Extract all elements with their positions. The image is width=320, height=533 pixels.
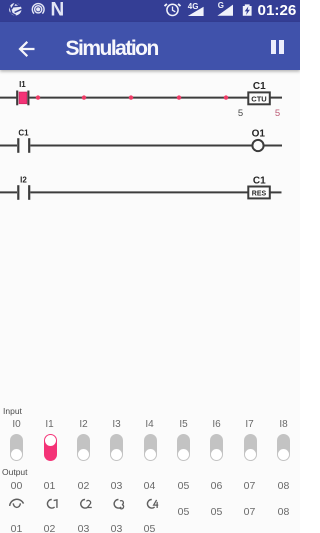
counter values right (05 05 07 08) xyxy=(0,506,300,516)
toggle I8 off xyxy=(277,434,290,461)
svg-text:CTU: CTU xyxy=(251,95,266,104)
output labels row xyxy=(0,480,300,490)
svg-text:01:26: 01:26 xyxy=(258,2,297,19)
flow dot 1 xyxy=(36,95,40,99)
rung 1 wire right xyxy=(270,97,282,99)
bottom row labels (01 02 03 03 05) xyxy=(0,523,300,533)
status bar xyxy=(0,0,300,22)
svg-text:RES: RES xyxy=(252,191,267,198)
svg-text:N: N xyxy=(51,0,65,21)
Input section label xyxy=(3,406,22,416)
app bar xyxy=(0,22,300,70)
counter C1 box CTU xyxy=(248,92,269,104)
toggle I0 off xyxy=(10,434,23,461)
rung 3 wire left xyxy=(0,191,17,193)
status icon alarm clock xyxy=(165,4,181,16)
flow dot 3 xyxy=(129,95,133,99)
svg-text:I1: I1 xyxy=(19,80,26,89)
svg-text:I2: I2 xyxy=(20,175,27,184)
svg-text:C1: C1 xyxy=(18,128,29,137)
contact I2 (open) xyxy=(18,185,29,200)
coil O1 xyxy=(252,140,263,151)
output lamp icons row xyxy=(0,497,300,513)
lamp icon O2 xyxy=(81,499,92,508)
flow dot 2 xyxy=(82,95,86,99)
lamp icon O3 xyxy=(114,499,123,508)
svg-text:5: 5 xyxy=(238,108,243,119)
toggle I1 on xyxy=(44,434,58,462)
svg-text:C1: C1 xyxy=(253,81,266,92)
status icon battery charging xyxy=(243,4,252,15)
lamp icon O1 xyxy=(47,499,56,508)
ladder diagram xyxy=(0,70,300,220)
toggle I2 off xyxy=(77,434,90,461)
svg-text:C1: C1 xyxy=(253,176,266,187)
contact C1 (open) xyxy=(18,138,29,153)
toggle I3 off xyxy=(110,434,123,461)
input labels row xyxy=(0,419,300,429)
svg-text:G: G xyxy=(218,1,224,10)
app bar title Simulation xyxy=(66,37,226,61)
rung 3 wire right xyxy=(270,191,282,193)
rung 1 wire left xyxy=(0,97,17,99)
svg-text:4G: 4G xyxy=(188,2,199,11)
status icon camera shutter xyxy=(9,3,21,15)
rung 2 wire right xyxy=(264,145,282,147)
status icons svg xyxy=(0,0,300,22)
reset C1 box RES xyxy=(248,187,269,199)
rung 3 wire to reset box xyxy=(30,191,248,193)
toggle I5 off xyxy=(177,434,190,461)
svg-text:5: 5 xyxy=(275,108,280,119)
rung 2 wire to coil xyxy=(30,145,252,147)
flow dot 4 xyxy=(177,95,181,99)
back arrow xyxy=(17,39,37,59)
flow dot 5 xyxy=(224,95,228,99)
toggle I4 off xyxy=(144,434,157,461)
svg-text:O1: O1 xyxy=(252,129,266,140)
lamp icon O0 xyxy=(10,499,24,507)
Output section label xyxy=(2,467,28,477)
toggle I7 off xyxy=(244,434,257,461)
rung 1 wire to counter xyxy=(30,97,248,99)
lamp icon O4 xyxy=(147,499,158,508)
pause button xyxy=(271,40,276,54)
toggle I6 off xyxy=(210,434,223,461)
status icon wireless/interactive xyxy=(32,4,44,14)
contact I1 (closed, energized) xyxy=(17,91,28,106)
rung 2 wire left xyxy=(0,145,17,147)
